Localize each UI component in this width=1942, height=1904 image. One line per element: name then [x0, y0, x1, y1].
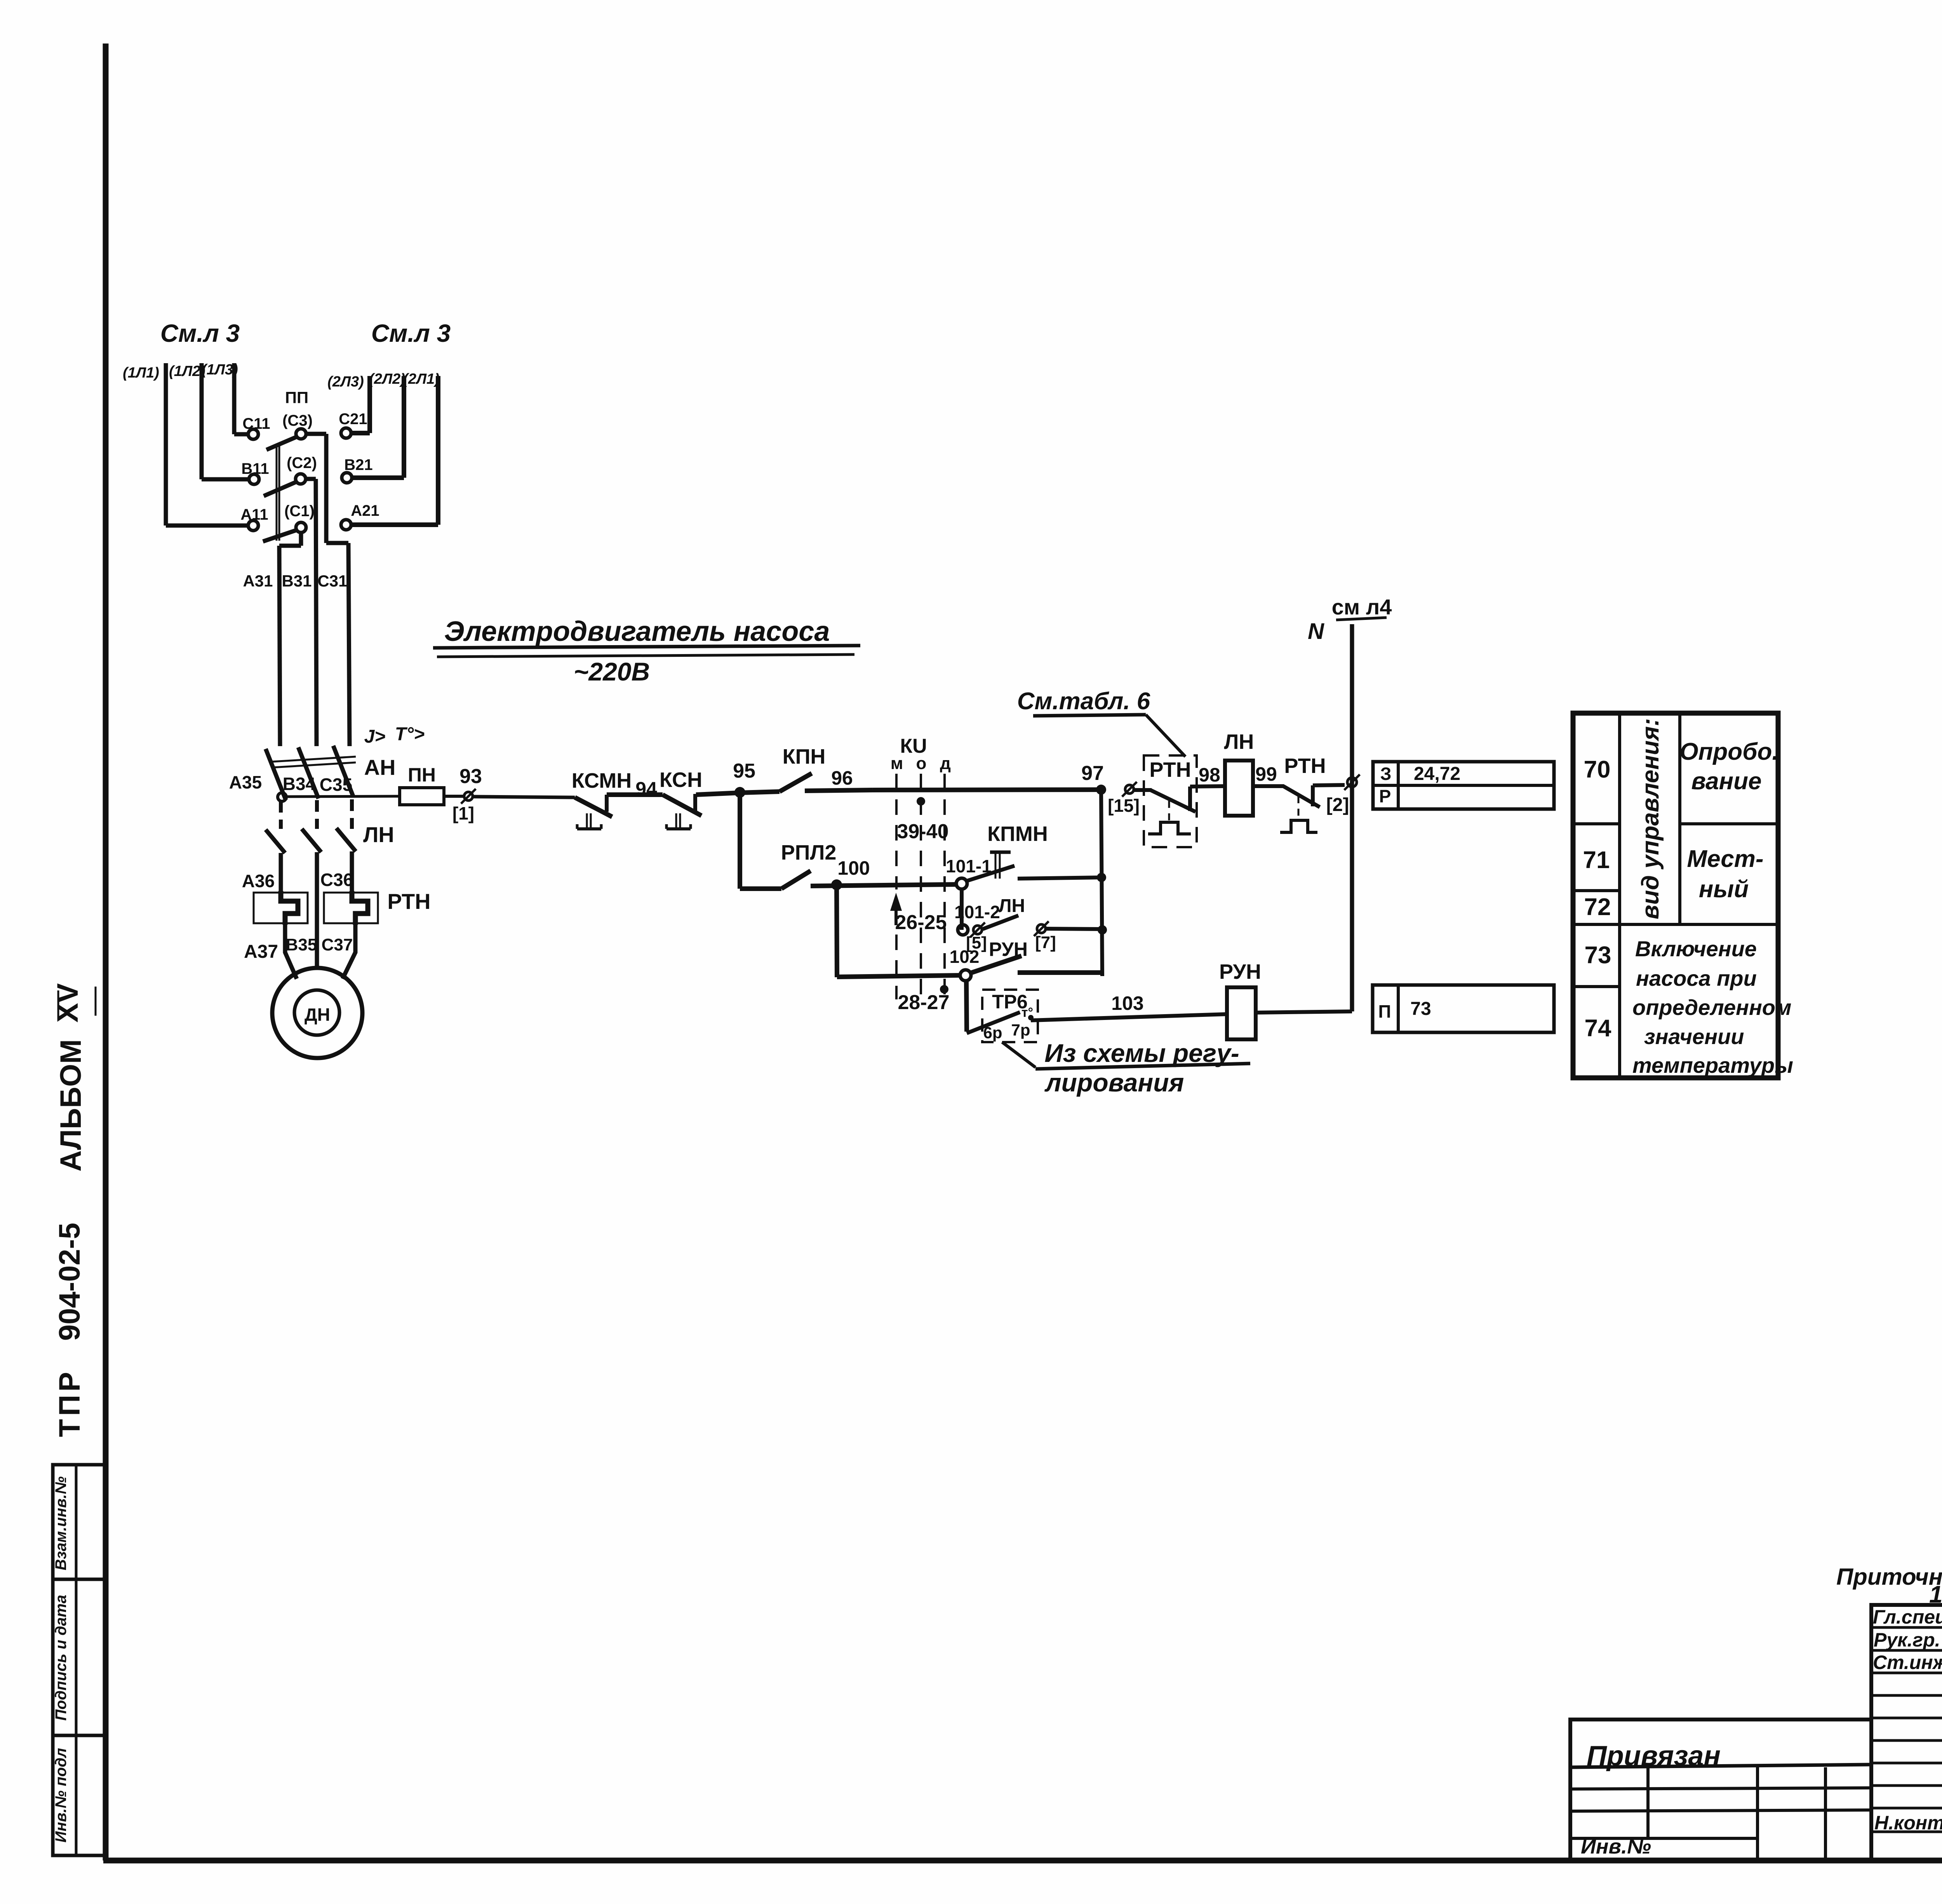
svg-text:РТН: РТН — [1149, 758, 1191, 781]
svg-text:24,72: 24,72 — [1414, 764, 1460, 784]
svg-text:ПП: ПП — [285, 388, 308, 407]
svg-text:98: 98 — [1199, 764, 1220, 786]
svg-text:Н.контр: Н.контр — [1874, 1812, 1942, 1834]
svg-text:Мест-: Мест- — [1687, 846, 1763, 872]
wire 1L1 stub — [164, 363, 168, 526]
svg-text:температуры: температуры — [1632, 1053, 1793, 1077]
wire from C2 down to B31 — [305, 477, 316, 481]
svg-text:72: 72 — [1584, 894, 1611, 921]
svg-text:39-40: 39-40 — [897, 820, 949, 843]
stamp column boxes — [53, 1465, 106, 1855]
svg-text:26-25: 26-25 — [895, 911, 947, 934]
svg-text:см л4: см л4 — [1332, 595, 1392, 619]
svg-text:101-2: 101-2 — [954, 902, 1000, 922]
svg-text:ный: ный — [1699, 876, 1749, 903]
svg-text:N: N — [1308, 619, 1324, 644]
svg-text:В21: В21 — [344, 456, 372, 473]
svg-text:Электродвигатель насоса: Электродвигатель насоса — [444, 616, 830, 647]
thermal switch TR6 box — [982, 990, 1038, 1042]
cable box Z 24.72 — [1373, 762, 1554, 809]
wire RUN to N — [1256, 1011, 1352, 1013]
svg-text:насоса при: насоса при — [1636, 966, 1757, 990]
svg-text:В35: В35 — [286, 935, 317, 954]
svg-text:(С3): (С3) — [282, 412, 313, 429]
pivyazan box — [1570, 1720, 1871, 1860]
svg-text:70: 70 — [1584, 756, 1611, 783]
wire 1L2 stub — [200, 363, 204, 479]
svg-text:о: о — [916, 754, 927, 773]
row3 from KPMN circle — [960, 889, 964, 930]
svg-text:[2]: [2] — [1326, 795, 1349, 815]
svg-text:97: 97 — [1081, 762, 1104, 785]
contactor LN pole C — [336, 828, 356, 851]
svg-text:С31: С31 — [317, 572, 347, 590]
svg-text:З: З — [1380, 764, 1392, 784]
svg-text:КПН: КПН — [783, 745, 826, 768]
table vid upravleniya — [1573, 713, 1778, 1078]
wire B phase below AN — [315, 800, 319, 829]
svg-text:XV: XV — [51, 983, 84, 1023]
svg-text:ЛН: ЛН — [999, 896, 1025, 916]
svg-text:Инв.№ подл: Инв.№ подл — [52, 1748, 70, 1843]
leader to iz shemy — [1002, 1042, 1035, 1067]
breaker AN pole A — [266, 749, 286, 800]
heater RTN phase C — [324, 893, 378, 923]
branch to RPL2 — [738, 792, 742, 889]
svg-text:Приточная: Приточная — [1836, 1564, 1942, 1590]
title block stamp table — [1871, 1605, 1942, 1860]
wire from C3 down to C31 — [306, 432, 326, 436]
svg-text:Р: Р — [1379, 786, 1391, 806]
svg-text:См.л 3: См.л 3 — [371, 319, 451, 347]
coil RUN — [1227, 987, 1256, 1039]
svg-text:Рук.гр.: Рук.гр. — [1874, 1629, 1940, 1651]
terminal 15 — [1125, 785, 1134, 794]
svg-text:м: м — [891, 754, 903, 773]
svg-text:РТН: РТН — [387, 889, 430, 914]
wire fuse to terminal 93 — [444, 795, 464, 798]
svg-text:Опробо.: Опробо. — [1679, 738, 1778, 765]
wire 93 to KSMN — [473, 797, 575, 797]
svg-text:96: 96 — [831, 767, 853, 789]
svg-text:определенном: определенном — [1632, 995, 1791, 1020]
svg-text:Гл.спец.: Гл.спец. — [1873, 1606, 1942, 1628]
svg-text:вид управления:: вид управления: — [1637, 718, 1664, 919]
svg-text:В31: В31 — [282, 572, 311, 590]
svg-text:ПН: ПН — [408, 764, 436, 786]
tap junction on A35 — [278, 793, 286, 801]
svg-text:73: 73 — [1410, 999, 1431, 1019]
TR6 contact — [966, 980, 967, 1032]
wire 1L3 stub — [232, 363, 237, 434]
svg-text:вание: вание — [1691, 768, 1762, 795]
svg-text:См.л 3: См.л 3 — [160, 319, 240, 347]
svg-text:П: П — [1378, 1001, 1391, 1022]
svg-text:ЛН: ЛН — [363, 822, 394, 847]
svg-text:[1]: [1] — [452, 803, 474, 823]
svg-text:АН: АН — [364, 755, 396, 780]
svg-text:[15]: [15] — [1108, 795, 1140, 816]
breaker AN pole C — [333, 746, 353, 797]
svg-text:КСН: КСН — [660, 768, 702, 792]
node 97 — [1096, 785, 1106, 795]
svg-text:(С1): (С1) — [284, 503, 315, 520]
wire A to motor — [285, 923, 297, 979]
switch PP pole C1 contacts — [248, 520, 258, 531]
svg-text:РУН: РУН — [989, 938, 1028, 960]
svg-text:С37: С37 — [322, 935, 353, 954]
svg-text:95: 95 — [733, 760, 755, 782]
svg-text:См.табл. 6: См.табл. 6 — [1017, 688, 1150, 715]
svg-text:~220В: ~220В — [574, 657, 650, 686]
switch PP pole C3 contacts — [248, 429, 258, 439]
svg-text:А35: А35 — [229, 772, 262, 792]
wire 99 — [1253, 784, 1284, 788]
svg-text:94: 94 — [635, 778, 657, 800]
svg-text:ДН: ДН — [305, 1004, 330, 1025]
svg-text:С36: С36 — [320, 870, 353, 890]
svg-text:РТН: РТН — [1284, 754, 1326, 778]
svg-text:(С2): (С2) — [287, 454, 317, 472]
motor DN — [272, 968, 362, 1058]
svg-text:(2Л2): (2Л2) — [369, 371, 405, 387]
svg-text:А37: А37 — [244, 942, 278, 962]
svg-text:T°>: T°> — [395, 724, 425, 745]
wire 2L2 stub — [402, 376, 406, 478]
position dot row4 — [940, 985, 948, 994]
svg-text:КПМН: КПМН — [987, 822, 1048, 846]
svg-text:103: 103 — [1111, 992, 1143, 1014]
svg-text:28-27: 28-27 — [898, 991, 950, 1014]
control wire to fuse — [285, 796, 400, 797]
svg-text:Инв.№: Инв.№ — [1581, 1835, 1651, 1858]
svg-text:Подпись и дата: Подпись и дата — [52, 1595, 70, 1721]
svg-text:А21: А21 — [351, 502, 379, 519]
svg-text:73: 73 — [1585, 942, 1611, 969]
cable box P 73 — [1373, 985, 1554, 1032]
svg-text:А31: А31 — [243, 572, 273, 590]
svg-text:74: 74 — [1585, 1015, 1611, 1042]
contactor LN pole A — [266, 830, 285, 853]
contact RTN self-return — [1134, 788, 1152, 792]
svg-text:102: 102 — [950, 947, 980, 967]
fuse PN — [400, 788, 444, 805]
svg-text:Ст.инж.: Ст.инж. — [1873, 1652, 1942, 1673]
position arrow 26-25 — [892, 896, 900, 910]
wire from C1 down to A31 — [299, 532, 303, 546]
svg-text:КСМН: КСМН — [572, 769, 632, 792]
svg-text:В34: В34 — [283, 774, 316, 794]
svg-text:С35: С35 — [320, 774, 352, 795]
contactor LN pole B — [302, 829, 321, 852]
border frame — [103, 44, 109, 1860]
relay RTN dashed box — [1144, 755, 1197, 847]
svg-text:Включение: Включение — [1635, 936, 1757, 961]
wire C phase below AN — [350, 799, 354, 829]
switch PP pole C2 contacts — [249, 474, 259, 484]
svg-text:С21: С21 — [339, 411, 367, 428]
wire 2L1 stub — [436, 376, 440, 525]
svg-text:71: 71 — [1583, 847, 1610, 874]
terminal on N line — [1347, 778, 1357, 787]
terminal 93 — [464, 792, 473, 801]
breaker AN mechanism link — [272, 757, 356, 762]
coil LN — [1225, 761, 1253, 816]
PP mechanical link — [276, 444, 278, 541]
svg-text:99: 99 — [1255, 763, 1277, 785]
position dot row1 — [917, 797, 925, 806]
svg-text:(1Л1): (1Л1) — [123, 365, 159, 381]
svg-text:значении: значении — [1644, 1024, 1744, 1049]
svg-text:АЛЬБОМ: АЛЬБОМ — [54, 1039, 87, 1172]
svg-text:ЛН: ЛН — [1224, 730, 1254, 754]
svg-text:лирования: лирования — [1044, 1068, 1184, 1097]
wire 2L3 stub — [367, 376, 372, 433]
svg-text:РУН: РУН — [1219, 960, 1261, 983]
svg-text:д: д — [940, 754, 951, 773]
svg-text:РПЛ2: РПЛ2 — [781, 841, 837, 864]
wire row2 to vertical — [1018, 877, 1102, 879]
N line — [1350, 624, 1354, 1011]
svg-text:ТПР: ТПР — [53, 1369, 86, 1437]
svg-text:[7]: [7] — [1035, 933, 1056, 952]
svg-text:J>: J> — [364, 726, 386, 747]
wire 96 to node 97 — [873, 790, 1101, 790]
junction dot 100 — [831, 879, 842, 890]
heater RTN phase A — [254, 893, 308, 923]
svg-text:(2Л3): (2Л3) — [327, 374, 364, 390]
svg-text:7р: 7р — [1011, 1021, 1030, 1039]
svg-text:А36: А36 — [242, 871, 275, 891]
wire 103 — [1031, 1014, 1227, 1020]
svg-text:Взам.инв.№: Взам.инв.№ — [52, 1476, 70, 1570]
vertical from node 97 — [1101, 790, 1102, 976]
wire C to motor — [343, 923, 355, 979]
svg-text:(2Л1): (2Л1) — [403, 371, 440, 387]
svg-text:904-02-5: 904-02-5 — [53, 1223, 86, 1341]
breaker AN pole B — [298, 747, 318, 799]
svg-text:100: 100 — [837, 857, 870, 879]
wire A phase below AN (dashed bit) — [279, 801, 283, 829]
svg-text:93: 93 — [459, 765, 482, 788]
node 95 — [734, 787, 745, 798]
